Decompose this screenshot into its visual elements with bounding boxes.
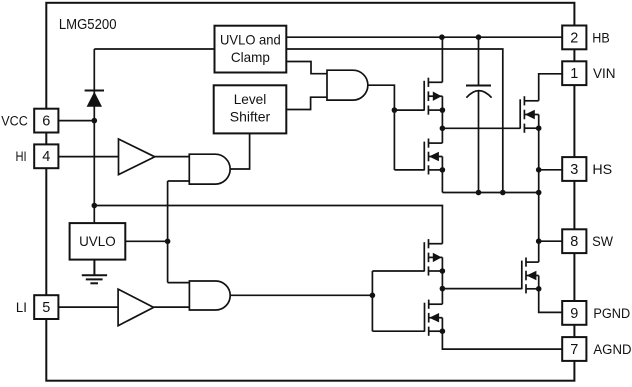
AND gate U1 (high-side logic) <box>189 154 230 184</box>
pin box HS (pin 3) <box>562 157 586 181</box>
wire AND U1 out to Level Shifter <box>229 133 250 169</box>
wire AND U3 top input <box>168 282 190 284</box>
AND gate U3 (low-side logic) <box>189 281 230 310</box>
diode D1 (bootstrap) <box>85 91 104 107</box>
junction Q1 source <box>440 107 446 113</box>
svg-text:AGND: AGND <box>593 342 631 358</box>
wire HS pin branch <box>539 169 563 171</box>
junction HS pin <box>536 167 542 173</box>
svg-text:Clamp: Clamp <box>231 49 270 65</box>
svg-text:VCC: VCC <box>1 114 28 130</box>
svg-text:VIN: VIN <box>593 66 616 82</box>
wire AND U2 out <box>368 85 395 170</box>
transistor Q1 (high-side GaN upper) <box>424 78 442 115</box>
svg-text:7: 7 <box>570 342 578 358</box>
transistor Q3 (low-side GaN upper) <box>424 239 442 276</box>
svg-text:6: 6 <box>42 114 50 130</box>
wire UVLO output <box>125 240 167 242</box>
wire Q1 drain to HB line <box>441 37 443 82</box>
svg-text:UVLO and: UVLO and <box>220 32 281 48</box>
wire Q6 source to PGND <box>539 289 563 313</box>
wire VCC top branch to UVLO and Clamp <box>94 48 214 50</box>
junction U3 out / gates <box>370 293 376 299</box>
svg-text:HI: HI <box>16 149 27 165</box>
pin box VCC (pin 6) <box>34 109 58 133</box>
junction HB / Q1 drain <box>439 34 445 40</box>
svg-text:4: 4 <box>42 149 50 165</box>
svg-text:2: 2 <box>570 30 578 46</box>
block Level Shifter <box>214 85 287 133</box>
pin box PGND (pin 9) <box>562 301 586 325</box>
junction rail / right <box>536 190 542 196</box>
buffer A2 (LI input buffer) <box>118 289 154 326</box>
wire UVLO/Clamp out to HB (node HB) <box>286 36 562 38</box>
junction HB / cap <box>476 34 482 40</box>
svg-text:3: 3 <box>570 162 578 178</box>
pin box VIN (pin 1) <box>562 61 586 85</box>
wire Q5 source vertical <box>538 128 540 262</box>
pin box HB (pin 2) <box>562 26 586 50</box>
wire UVLO/Clamp out2 <box>286 49 503 193</box>
pin box HI (pin 4) <box>34 144 58 168</box>
junction Q4 source <box>440 328 446 334</box>
svg-text:Shifter: Shifter <box>230 109 271 125</box>
svg-text:LMG5200: LMG5200 <box>59 17 117 33</box>
wire cap bottom to rail <box>478 91 480 192</box>
svg-text:1: 1 <box>570 66 578 82</box>
junction U2 out / Q1 gate <box>392 107 398 113</box>
ground <box>82 260 107 284</box>
AND gate U2 (high-side driver) <box>327 70 368 100</box>
junction rail / cap <box>476 190 482 196</box>
svg-text:5: 5 <box>42 300 50 316</box>
capacitor C1 (bootstrap) <box>466 86 492 98</box>
junction VCC branch <box>92 203 98 209</box>
junction low midpoint <box>440 286 446 292</box>
wire Level Shifter out to AND U2 <box>286 97 327 109</box>
junction SW pin <box>536 238 542 244</box>
wire Q3 source to Q4 drain <box>441 271 443 304</box>
wire Q5 drain to VIN <box>539 74 563 101</box>
wire LI pin to buffer A2 <box>58 306 118 308</box>
block UVLO <box>70 223 126 260</box>
svg-text:PGND: PGND <box>593 306 630 322</box>
wire UVLO enable vertical <box>167 181 169 283</box>
block UVLO and Clamp <box>215 26 287 73</box>
wire Q2 source to rail <box>441 170 443 193</box>
junction VCC-diode <box>92 118 98 124</box>
junction Q2 source <box>440 167 446 173</box>
wire VCC pin to diode line <box>58 120 94 122</box>
wire AND U3 out <box>229 294 373 296</box>
wire low-side gates vertical <box>371 271 373 331</box>
pin box LI (pin 5) <box>34 295 58 319</box>
wire VCC branch to Q3 drain <box>94 206 442 244</box>
wire buffer A1 to AND U1 <box>155 156 190 158</box>
transistor Q2 (high-side GaN lower) <box>424 139 442 175</box>
wire Q4 source to AGND <box>442 331 562 349</box>
wire UVLO/Clamp out3 to AND U2 <box>286 62 327 74</box>
svg-text:LI: LI <box>16 300 27 316</box>
wire Q1 gate lead <box>394 109 424 111</box>
pin box AGND (pin 7) <box>562 337 586 361</box>
wire Q1 source to Q2 drain (node HS int) <box>441 110 443 143</box>
wire AND U1 bottom input <box>168 180 190 182</box>
wire midpoint to Q6 gate <box>442 288 521 290</box>
pin box SW (pin 8) <box>562 229 586 253</box>
junction Q6 source <box>536 286 542 292</box>
junction HS midpoint <box>440 126 446 132</box>
junction Q5 source <box>536 125 542 131</box>
transistor Q6 (low-side output GaN) <box>522 258 539 294</box>
wire cap top from HB line <box>478 37 480 85</box>
wire Q2 gate lead <box>394 169 424 171</box>
junction rail / out2 <box>500 190 506 196</box>
wire buffer A2 to AND U3 <box>154 306 190 308</box>
svg-text:HB: HB <box>592 30 609 46</box>
wire internal rail <box>442 192 538 194</box>
wire Q4 gate lead <box>372 330 424 332</box>
transistor Q4 (low-side GaN lower) <box>425 300 443 336</box>
wire VCC vertical (diode branch) <box>93 49 95 223</box>
transistor Q5 (high-side output GaN) <box>520 96 539 133</box>
svg-text:SW: SW <box>592 234 613 250</box>
junction UVLO out <box>165 239 171 245</box>
wire SW pin branch <box>539 240 563 242</box>
svg-text:Level: Level <box>234 91 267 107</box>
wire HS midpoint to Q5 gate <box>442 127 520 129</box>
svg-text:HS: HS <box>592 162 612 178</box>
svg-text:8: 8 <box>570 234 578 250</box>
buffer A1 (HI input buffer) <box>119 139 155 175</box>
wire HI pin to buffer A1 <box>58 156 118 158</box>
svg-text:UVLO: UVLO <box>79 233 116 249</box>
junction Q3 source <box>440 268 446 274</box>
wire Q3 gate lead <box>372 270 424 272</box>
svg-text:9: 9 <box>570 306 578 322</box>
